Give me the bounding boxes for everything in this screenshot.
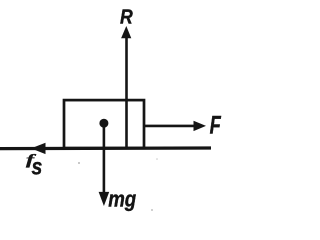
wire: normal reaction line R (vertical through block)	[125, 33, 128, 148]
wire: applied force line F (horizontal from block)	[144, 125, 196, 128]
ground / surface line	[0, 146, 211, 150]
arrowhead mg (down)	[99, 192, 110, 206]
wire: weight line mg (vertical, downward)	[103, 123, 106, 195]
arrowhead F (right)	[194, 121, 207, 131]
svg-text:s: s	[31, 154, 42, 180]
svg-text:R: R	[120, 6, 133, 29]
svg-text:F: F	[210, 111, 222, 140]
arrowhead R (up)	[121, 26, 131, 38]
speck (scan noise)	[156, 158, 158, 160]
svg-text:mg: mg	[108, 187, 136, 212]
block (rectangle resting on surface)	[64, 100, 144, 148]
node: centre-of-mass dot	[99, 119, 108, 128]
speck (scan noise)	[151, 209, 153, 211]
friction arrowhead fs (pointing left along surface)	[31, 143, 46, 154]
speck (scan noise)	[78, 162, 80, 164]
